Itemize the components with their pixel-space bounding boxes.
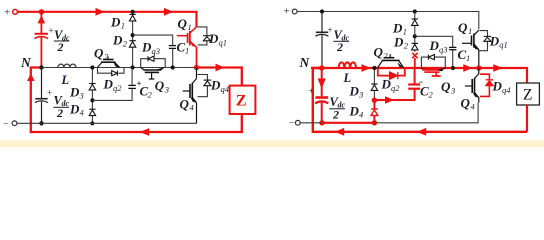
freewheel diode D_q4 loop (right, red) [480, 74, 490, 96]
capacitor C1 plates [169, 46, 176, 49]
junction dot L / D3 (black on red wire) [372, 66, 376, 70]
negative terminal (right) [289, 118, 300, 129]
antiparallel diode loop D_q3 (right) [421, 57, 445, 68]
red branch N down through lower cap [315, 68, 328, 123]
svg-text:2: 2 [57, 40, 64, 54]
svg-text:D: D [489, 33, 500, 48]
output wire red to load (right) [479, 68, 527, 83]
svg-text:3: 3 [79, 91, 84, 101]
transistor Q4 (right) [465, 68, 479, 103]
junction dot lower cap / inner rail (right) [319, 120, 324, 125]
svg-text:D: D [69, 85, 80, 100]
label Q1 (right) [458, 20, 472, 36]
junction dot D1/D2 midpoint [131, 33, 135, 37]
svg-text:2: 2 [404, 41, 409, 51]
junction dot D3/D4 midpoint (red) [372, 98, 377, 103]
junction dot at L/D3 [90, 65, 94, 69]
emitter arrow Q4 (right) [473, 93, 478, 97]
label D_q4 (right) [492, 79, 512, 96]
svg-text:+: + [328, 25, 333, 35]
diode D_q2 symbol (right, red filled) [390, 72, 398, 79]
transistor Q1 (red) [177, 27, 197, 68]
label D_q4 [210, 78, 230, 95]
D1 / D2 branch (right) [414, 12, 416, 53]
label D_q3 (right) [429, 38, 448, 55]
junction dot rail/D1 [131, 10, 135, 14]
diode D4 (right, red) [371, 109, 378, 115]
transistor Q1 (right, black) [462, 30, 479, 68]
label D3 [69, 85, 84, 101]
label + Vdc/2 (upper, left) [49, 26, 71, 54]
svg-text:D: D [349, 104, 360, 119]
svg-text:4: 4 [359, 110, 364, 120]
capacitor C2 plates [128, 85, 136, 88]
red corner from N down to outer bottom rail [313, 68, 527, 132]
cream band at bottom [0, 141, 544, 147]
diode D1 [129, 14, 135, 21]
junction dot N [39, 65, 43, 69]
load box Z (red) [230, 86, 256, 114]
red return path from N to bottom rail + bottom rail [31, 68, 243, 133]
junction dot output node (right, red) [476, 65, 481, 70]
current arrow on outer bottom rail 2 (left-pointing) [417, 128, 426, 136]
bottom inner wire red segment (cap loop) [322, 122, 374, 124]
junction dot D3/D4 midpoint [90, 98, 94, 102]
freewheel diode D_q1 loop (right) [480, 31, 488, 51]
junction dot D2 bottom / mid wire [131, 65, 135, 69]
svg-text:1: 1 [466, 53, 470, 63]
svg-text:−: − [3, 119, 9, 130]
svg-text:D: D [381, 77, 392, 92]
junction dot C1 bottom / mid wire [171, 65, 175, 69]
current arrow on output wire [216, 64, 225, 72]
svg-text:D: D [69, 102, 80, 117]
svg-text:D: D [349, 84, 360, 99]
svg-text:+: + [284, 5, 290, 17]
svg-text:3: 3 [450, 85, 455, 95]
diode D3 [89, 84, 95, 90]
svg-text:1: 1 [188, 22, 192, 32]
svg-text:Z: Z [523, 87, 532, 104]
diode D4 [89, 109, 95, 115]
positive terminal (right) [284, 5, 298, 17]
label Q2 (right) [374, 45, 389, 61]
svg-text:2: 2 [56, 106, 63, 120]
diode D_q1 symbol [203, 36, 211, 41]
svg-text:1: 1 [121, 21, 125, 31]
svg-text:1: 1 [185, 46, 189, 56]
svg-text:2: 2 [123, 39, 128, 49]
transistor Q4 [183, 68, 197, 124]
junction dot output node (red) [194, 65, 199, 70]
junction dot D4 bottom (red) [372, 120, 377, 125]
bottom inner wire: black stubs [300, 103, 478, 123]
diode D_q1 symbol (right) [484, 36, 491, 41]
capacitor C2 branch (right, red) [374, 68, 420, 100]
svg-text:1: 1 [468, 26, 472, 36]
emitter arrow Q2 (right) [398, 63, 403, 67]
svg-text:2: 2 [429, 90, 434, 100]
label + Vdc/2 (upper, right) [328, 25, 350, 54]
label D1 [110, 15, 125, 31]
current arrow up near N [27, 73, 35, 81]
diode D2 (right) [412, 43, 418, 50]
diode D_q2 symbol [112, 71, 118, 76]
inductor L [58, 64, 76, 67]
load bottom lead red [241, 114, 243, 132]
label D3 (right) [349, 84, 364, 100]
D3 / D4 branch [91, 68, 93, 124]
current arrow on outer bottom rail 1 (left-pointing) [335, 128, 344, 136]
current arrow on top rail (second) [164, 8, 173, 16]
diode D2 [129, 41, 135, 48]
svg-text:q3: q3 [152, 46, 161, 56]
capacitor C1 branch (right) [415, 36, 453, 68]
freewheel diode D_q1 loop [198, 27, 207, 45]
svg-text:Q: Q [94, 46, 104, 61]
svg-text:q1: q1 [219, 38, 228, 48]
svg-text:q4: q4 [221, 84, 230, 94]
svg-text:L: L [61, 73, 70, 87]
svg-text:D: D [393, 35, 404, 50]
label D4 [69, 102, 85, 118]
label + C2 [137, 79, 153, 100]
label D2 [112, 33, 128, 49]
svg-text:3: 3 [164, 84, 169, 94]
svg-text:Z: Z [236, 93, 247, 110]
label + Vdc/2 (lower, left) [47, 88, 70, 121]
svg-text:+: + [309, 87, 314, 97]
load bottom lead red (right) [526, 105, 528, 132]
diode D3 (right, black) [371, 84, 377, 90]
current arrow on top rail (first) [96, 8, 105, 16]
svg-text:Q: Q [441, 79, 451, 94]
D1 / D2 branch from top rail [132, 12, 134, 68]
junction dot C1 bottom / mid wire (right) [451, 66, 455, 70]
svg-text:2: 2 [384, 51, 389, 61]
label Vdc/2 (lower, right) [329, 95, 345, 122]
svg-text:D: D [210, 78, 221, 93]
positive terminal P (left) [4, 7, 17, 19]
svg-text:q2: q2 [113, 83, 122, 93]
red path D3/D4 midpoint through D4 to inner rail [373, 100, 375, 123]
red blocked segment below D2 with X mark [414, 58, 416, 68]
label Q1 [178, 16, 192, 32]
svg-text:Q: Q [458, 20, 468, 35]
diode D_q3 symbol (right) [428, 55, 434, 60]
svg-text:q3: q3 [439, 45, 448, 55]
D3 / D4 branch (right) [373, 68, 375, 100]
svg-text:4: 4 [80, 108, 85, 118]
svg-text:4: 4 [471, 102, 476, 112]
diode D_q4 symbol [204, 80, 212, 86]
label C1 [177, 40, 190, 56]
junction node rail / upper cap (right) [320, 9, 324, 13]
transistor Q3 (mirrored below wire) [141, 68, 164, 80]
current arrow on bottom rail (left-pointing) [140, 128, 149, 136]
svg-text:D: D [110, 15, 121, 30]
diode D_q3 symbol [148, 56, 154, 61]
svg-text:−: − [289, 118, 295, 129]
label minus C2 [419, 77, 434, 100]
svg-text:D: D [429, 38, 440, 53]
label Q2 [94, 46, 109, 62]
upper capacitor (Vdc/2) branch (right, black) [315, 12, 328, 69]
svg-text:D: D [492, 79, 503, 94]
svg-text:D: D [208, 31, 219, 46]
svg-text:q1: q1 [499, 40, 508, 50]
current arrow down on lower cap branch [318, 79, 326, 89]
capacitor C2 branch [92, 68, 132, 101]
current arrow on upper cap branch (up) [38, 15, 46, 23]
svg-text:q2: q2 [391, 83, 400, 93]
mid wire N to output (black) [42, 67, 197, 69]
label D_q2 (right) [381, 77, 401, 94]
transistor Q2 [97, 57, 120, 68]
label C1 (right) [458, 47, 471, 63]
output wire red to load [197, 68, 242, 86]
current arrow before output node [463, 64, 472, 72]
junction dot D4 bottom [90, 121, 94, 125]
current arrow on C2 bottom wire (left-pointing) [385, 96, 394, 104]
svg-text:D: D [392, 21, 403, 36]
svg-text:+: + [47, 88, 52, 98]
top rail wire (red) with drop to Q1 [18, 12, 197, 27]
lower capacitor (Vdc/2) branch black [35, 68, 48, 124]
svg-text:Q: Q [461, 96, 471, 111]
svg-text:2: 2 [336, 40, 343, 54]
svg-text:D: D [141, 40, 152, 55]
svg-text:2: 2 [332, 108, 339, 122]
svg-text:+: + [49, 26, 54, 36]
junction node rail / D1 (right) [413, 9, 417, 13]
junction node rail / upper cap (red) [39, 9, 44, 14]
svg-text:+: + [4, 7, 10, 19]
svg-text:3: 3 [358, 90, 363, 100]
label D_q1 (right) [489, 33, 508, 49]
svg-text:Q: Q [180, 97, 190, 112]
Q3 channel and gate bars (red) [422, 70, 441, 76]
diode D_q4 symbol (right, red filled) [486, 80, 494, 86]
label Q3 [155, 78, 169, 94]
svg-text:N: N [299, 55, 311, 70]
top rail wire (right, black) with drop to Q1 [297, 12, 479, 30]
svg-text:4: 4 [190, 103, 195, 113]
junction dot lower cap / bottom wire [39, 121, 43, 125]
negative terminal (left) [3, 119, 17, 130]
antiparallel diode loop D_q2 (right, red) [378, 68, 405, 76]
current arrow after output node [493, 64, 502, 72]
junction dot N (right, red) [319, 65, 324, 70]
upper capacitor C (Vdc/2) branch, red [34, 12, 48, 67]
label D1 (right) [392, 21, 407, 37]
capacitor C1 plates (right) [449, 47, 456, 49]
svg-text:2: 2 [148, 90, 153, 100]
current arrow on mid wire after L [362, 64, 371, 72]
label D_q2 [103, 77, 123, 94]
junction dot D1/D2 midpoint (right) [413, 34, 417, 38]
svg-text:Q: Q [155, 78, 165, 93]
svg-text:D: D [103, 77, 114, 92]
svg-text:Q: Q [374, 45, 384, 60]
emitter arrow Q4 [191, 98, 196, 102]
svg-text:q4: q4 [502, 85, 511, 95]
antiparallel diode loop D_q2 [98, 68, 125, 74]
freewheel diode D_q4 loop [198, 75, 208, 97]
red X mark (blocked path) [412, 53, 417, 58]
emitter arrow Q2 [114, 63, 119, 67]
label Q4 [180, 97, 195, 113]
capacitor C1 branch [133, 35, 173, 67]
bottom wire black (left) [17, 122, 197, 124]
emitter arrow Q1 (right) [474, 45, 479, 50]
antiparallel diode loop D_q3 [141, 59, 166, 68]
label Q4 (right) [461, 96, 476, 112]
label Q3 (right) [441, 79, 455, 95]
emitter arrow Q1 (red) [191, 42, 196, 47]
svg-text:Q: Q [178, 16, 188, 31]
label D2 (right) [393, 35, 409, 51]
svg-text:D: D [112, 33, 123, 48]
load box Z (right, black) [517, 83, 540, 105]
label D4 (right) [349, 104, 365, 120]
emitter arrow Q3 (right) [438, 68, 444, 71]
emitter arrow Q3 [157, 68, 163, 71]
transistor Q2 (right) [378, 54, 404, 68]
transistor Q3 (right, gate red) [421, 68, 445, 70]
label D_q3 [141, 40, 160, 57]
diode D1 (right) [412, 19, 418, 25]
red mid wire N to output (right) [311, 67, 479, 69]
svg-text:1: 1 [403, 27, 407, 37]
label D_q1 [208, 31, 227, 48]
inductor L (right, red) [339, 62, 356, 68]
